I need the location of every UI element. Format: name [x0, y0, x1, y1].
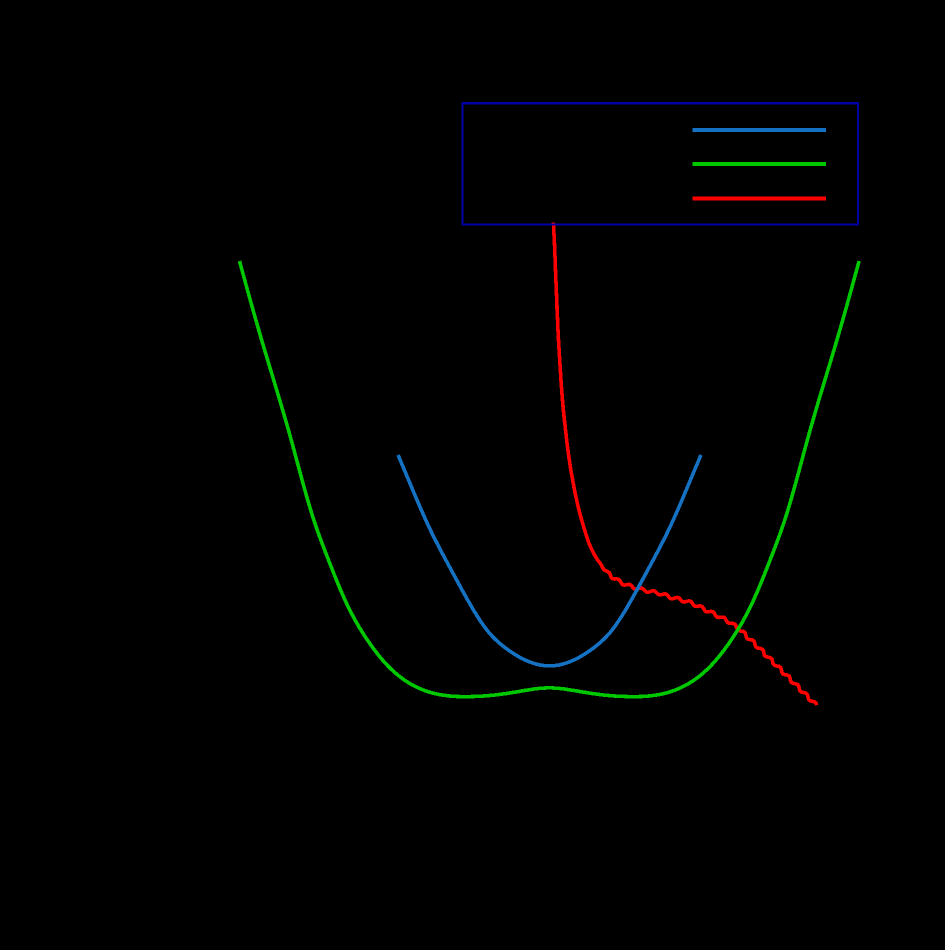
red curve — [553, 223, 816, 706]
green curve — [240, 261, 860, 697]
legend line blue — [693, 128, 827, 132]
blue curve — [398, 455, 701, 666]
legend box — [463, 103, 859, 224]
legend line red — [693, 197, 827, 201]
legend line green — [693, 162, 827, 166]
